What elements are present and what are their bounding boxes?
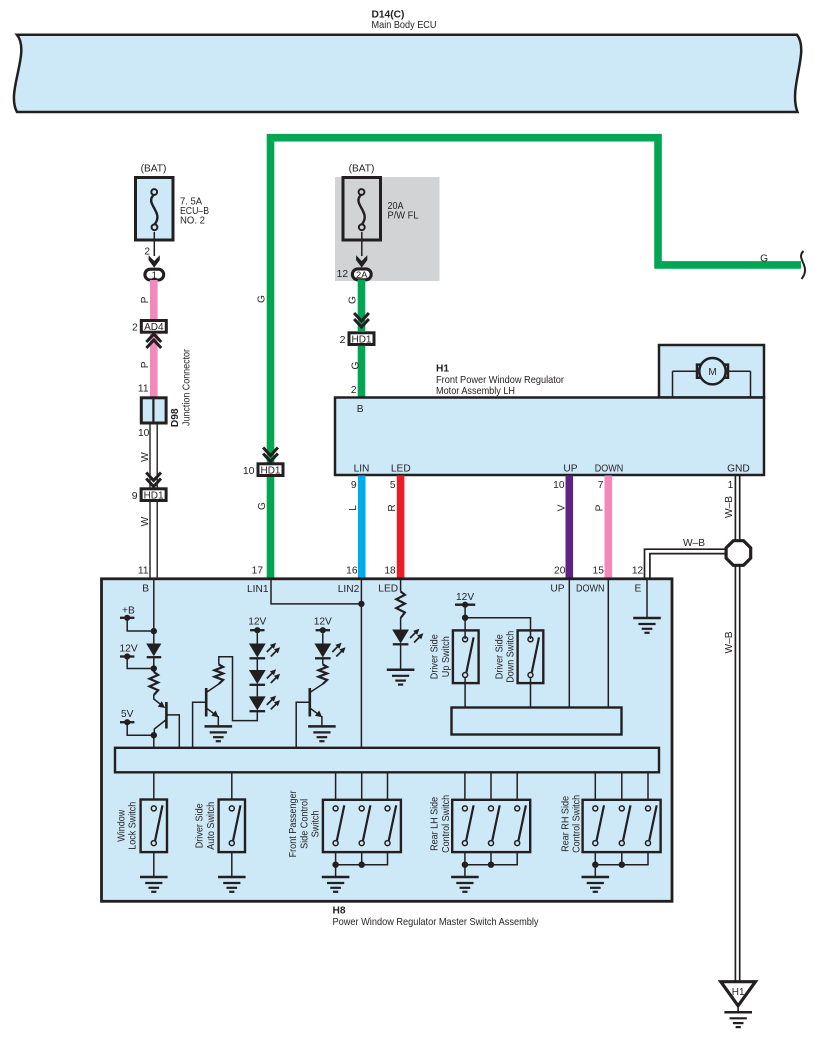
svg-text:W–B: W–B [724, 631, 735, 653]
svg-text:DOWN: DOWN [595, 464, 624, 475]
wires bus to rear RH side control switch [594, 772, 596, 800]
svg-text:11: 11 [138, 566, 149, 577]
ground under Q2 [205, 726, 233, 741]
front passenger side control switch box [323, 800, 401, 852]
svg-text:G: G [351, 361, 362, 369]
LED4 [314, 644, 331, 658]
svg-text:1: 1 [728, 480, 734, 491]
svg-text:G: G [760, 254, 768, 265]
window lock switch box [141, 800, 167, 853]
wire P pink: AD4 to D98 [150, 333, 158, 397]
svg-text:12V: 12V [120, 644, 138, 655]
svg-text:W: W [140, 452, 151, 462]
svg-text:Switch: Switch [311, 810, 322, 837]
ground E [633, 618, 661, 633]
svg-text:LED: LED [391, 464, 411, 475]
wires front passenger side control switch to ground [335, 852, 337, 876]
svg-text:18: 18 [384, 566, 396, 577]
earth ground symbol bottom [724, 1012, 752, 1027]
svg-text:10: 10 [553, 480, 565, 491]
oval connector 2A [352, 269, 371, 280]
svg-text:Motor Assembly LH: Motor Assembly LH [436, 386, 515, 397]
svg-text:Rear LH Side: Rear LH Side [430, 797, 441, 851]
motor box on H1 [659, 345, 764, 398]
ground rear LH side control switch [451, 877, 479, 892]
fuse element symbol [358, 189, 364, 230]
LED5 [392, 630, 409, 644]
wire bus to window lock switch [153, 772, 155, 799]
triangle ground connector H1 [721, 982, 756, 1006]
wire DOWN pin down to sub-bus [607, 580, 609, 708]
svg-text:Lock Switch: Lock Switch [128, 802, 139, 850]
LED2 [249, 670, 266, 684]
connector HD1 pin 9 [141, 489, 166, 501]
ground under LED5 [387, 670, 415, 685]
svg-text:UP: UP [563, 464, 577, 475]
svg-text:P: P [140, 361, 151, 368]
chevron down above HD1 [146, 473, 161, 487]
svg-text:20: 20 [554, 566, 566, 577]
svg-text:Driver Side: Driver Side [195, 803, 206, 848]
svg-text:Side Control: Side Control [299, 799, 310, 849]
svg-text:Control Switch: Control Switch [572, 795, 583, 853]
ground window lock [140, 877, 168, 892]
wire UP pin down to sub-bus [568, 580, 570, 708]
svg-text:G: G [257, 295, 268, 303]
break squiggle at right end of green wire [801, 251, 805, 279]
svg-text:H1: H1 [436, 363, 449, 374]
svg-text:2: 2 [340, 334, 346, 346]
svg-text:12V: 12V [314, 617, 332, 628]
svg-text:G: G [348, 296, 359, 304]
wire P pink: oval 1 to AD4 [150, 280, 158, 319]
wires rear LH side control switch to ground [464, 852, 466, 876]
svg-text:DOWN: DOWN [576, 584, 605, 595]
svg-text:P: P [595, 504, 606, 511]
H8 Power Window Regulator Master Switch Assembly box [102, 579, 673, 902]
wire bus to driver auto switch [231, 772, 233, 799]
LED3 [249, 696, 266, 710]
svg-text:1: 1 [152, 270, 158, 281]
wire B line inside master [153, 580, 155, 644]
svg-text:2: 2 [144, 247, 150, 258]
svg-text:Rear RH Side: Rear RH Side [560, 796, 571, 852]
svg-text:(BAT): (BAT) [349, 163, 375, 174]
svg-text:B: B [357, 404, 364, 415]
ground under Q3 [308, 726, 336, 741]
chevron up below AD4 [146, 334, 161, 348]
rear LH side control switch box [452, 800, 530, 852]
LED1 [249, 644, 266, 658]
svg-text:9: 9 [351, 480, 357, 491]
svg-text:W: W [140, 516, 151, 526]
fuse ECU-B NO. 2 box [136, 178, 174, 241]
svg-text:Junction Connector: Junction Connector [181, 348, 192, 426]
main bus bar rectangle [115, 748, 659, 773]
wires switches to sub-bus [464, 678, 466, 708]
wire V purple UP [565, 476, 573, 579]
svg-text:11: 11 [138, 384, 149, 395]
node branch 12V [462, 615, 468, 621]
rear RH side control switch box [583, 800, 661, 852]
svg-text:2: 2 [351, 385, 357, 396]
svg-text:Window: Window [116, 809, 127, 842]
svg-text:7: 7 [598, 480, 604, 491]
svg-text:Main Body ECU: Main Body ECU [372, 20, 437, 31]
wires bus to rear LH side control switch [464, 772, 466, 800]
svg-text:12V: 12V [248, 617, 266, 628]
wire W white double-line: D98 to HD1 [150, 424, 157, 578]
svg-text:12V: 12V [456, 592, 474, 603]
svg-text:D98: D98 [170, 408, 181, 427]
wire E pin to ground [646, 580, 648, 618]
ground rear RH side control switch [582, 877, 610, 892]
octagon splice connector [726, 541, 751, 566]
fuse element symbol [151, 189, 157, 230]
svg-text:2A: 2A [356, 270, 368, 281]
svg-text:12: 12 [337, 269, 349, 280]
svg-text:V: V [556, 504, 567, 511]
wire LIN2 down to bus [360, 580, 362, 748]
svg-text:9: 9 [132, 490, 138, 502]
svg-text:15: 15 [593, 566, 605, 577]
node junction LIN1/LIN2 [358, 601, 364, 607]
svg-text:P: P [140, 296, 151, 303]
svg-text:Power Window Regulator Master: Power Window Regulator Master Switch Ass… [333, 917, 540, 928]
svg-text:LED: LED [378, 584, 398, 595]
svg-text:12: 12 [632, 566, 644, 577]
svg-text:M: M [708, 367, 716, 378]
ground front passenger side control switch [322, 877, 350, 892]
svg-text:Control Switch: Control Switch [441, 795, 452, 853]
svg-text:B: B [142, 584, 149, 595]
svg-text:Driver Side: Driver Side [430, 634, 441, 679]
transistor Q1 [165, 702, 168, 729]
connector arrow into oval 2A [356, 255, 367, 267]
svg-text:+B: +B [122, 605, 135, 616]
wire P pink DOWN [604, 476, 612, 579]
svg-text:(BAT): (BAT) [141, 163, 167, 174]
wire G green: 2A to HD1 [358, 280, 366, 332]
svg-text:R: R [387, 504, 398, 511]
wire G green: HD1 to H1 B pin [358, 346, 366, 398]
svg-text:LIN1: LIN1 [247, 584, 269, 595]
chevron down above HD1 pin 2 [354, 313, 369, 327]
svg-text:E: E [635, 584, 642, 595]
diode D on B line [146, 644, 161, 657]
wires bus to front passenger side control switch [335, 772, 337, 800]
svg-text:2: 2 [132, 322, 138, 334]
wire L cyan LIN [358, 476, 366, 579]
node junction B/+B [151, 628, 157, 634]
resistor R2 [215, 665, 224, 685]
svg-text:NO. 2: NO. 2 [180, 216, 205, 227]
svg-text:HD1: HD1 [144, 491, 164, 502]
transistor Q3 [308, 688, 311, 717]
svg-text:L: L [348, 505, 359, 511]
svg-text:LIN2: LIN2 [338, 584, 360, 595]
node junction 5V/emitter [151, 732, 157, 738]
connector HD1 pin 2 [349, 333, 374, 345]
svg-text:17: 17 [252, 566, 264, 577]
resistor R1 on B line [150, 672, 159, 695]
wire from fuse to connector 1 [153, 232, 155, 256]
wire G green from ECU area: LIN1 branch up, across and to right break [271, 138, 802, 578]
ECU D14(C) Main Body ECU band [14, 35, 801, 112]
motor M symbol [673, 358, 751, 397]
ground driver auto [218, 877, 246, 892]
svg-text:Down Switch: Down Switch [506, 631, 517, 683]
junction connector D98 box [141, 398, 166, 423]
node junction diode/12V [151, 665, 157, 671]
svg-text:W–B: W–B [724, 496, 735, 518]
svg-text:Auto Switch: Auto Switch [206, 802, 217, 850]
svg-text:5V: 5V [121, 709, 134, 720]
wire to transistor Q1 base with arrow [154, 695, 161, 705]
svg-text:LIN: LIN [354, 464, 370, 475]
svg-text:G: G [257, 502, 268, 510]
svg-text:H8: H8 [333, 906, 346, 917]
svg-text:16: 16 [346, 566, 358, 577]
svg-text:UP: UP [550, 584, 564, 595]
svg-text:Front Power Window Regulator: Front Power Window Regulator [436, 375, 565, 386]
svg-text:10: 10 [243, 465, 255, 477]
driver side auto switch box [219, 800, 245, 853]
svg-text:5: 5 [390, 480, 396, 491]
driver side up switch box [453, 630, 479, 683]
wire W-B horizontal: octagon to E pin [645, 549, 727, 578]
wire W-B double line GND [735, 476, 739, 982]
svg-text:P/W FL: P/W FL [388, 210, 419, 221]
svg-text:HD1: HD1 [351, 335, 371, 346]
wires rear RH side control switch to ground [594, 852, 596, 876]
svg-text:10: 10 [138, 428, 150, 439]
svg-text:AD4: AD4 [144, 322, 164, 333]
svg-text:W–B: W–B [683, 538, 705, 549]
resistor R4 on LED pin [400, 580, 402, 592]
wire LED3 to resistor R2 loop [219, 657, 257, 721]
wire R red LED [397, 476, 405, 579]
connector HD1 pin 10 [258, 464, 283, 476]
transistor Q2 [205, 688, 208, 717]
gray box around P/W FL fuse [335, 177, 440, 281]
connector AD4 pin 2 [141, 321, 166, 333]
fuse P/W FL box [343, 178, 381, 241]
wire from fuse to connector 2A [361, 232, 363, 256]
svg-text:Front Passenger: Front Passenger [288, 790, 299, 858]
resistor R3 [319, 665, 328, 685]
wire LIN1 to LIN2 jumper [271, 580, 361, 604]
chevron down above HD1 pin 10 [263, 448, 278, 462]
svg-text:GND: GND [727, 464, 750, 475]
driver side down switch box [518, 630, 544, 683]
connector arrow into oval 1 [149, 255, 160, 267]
H1 Front Power Window Regulator Motor Assembly LH box [335, 398, 764, 476]
svg-text:Driver Side: Driver Side [494, 634, 505, 679]
svg-text:H1: H1 [732, 987, 745, 998]
svg-text:Up Switch: Up Switch [441, 636, 452, 677]
sub-bus rectangle [452, 708, 622, 735]
svg-text:HD1: HD1 [260, 466, 280, 477]
oval connector 1 [145, 269, 164, 280]
